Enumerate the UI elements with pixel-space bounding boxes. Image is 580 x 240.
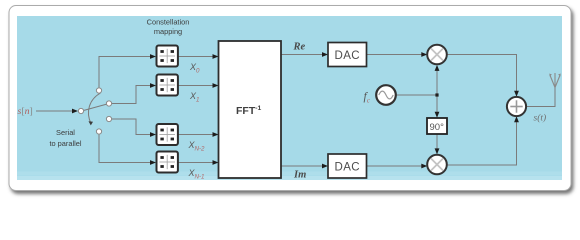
svg-text:DAC: DAC [335,162,360,174]
svg-text:s[n]: s[n] [18,106,33,117]
svg-text:mapping: mapping [154,27,182,36]
svg-text:Serial: Serial [56,128,75,137]
svg-text:Im: Im [293,170,306,181]
svg-text:s(t): s(t) [534,113,547,124]
svg-text:to parallel: to parallel [49,139,81,148]
svg-text:90°: 90° [430,122,445,133]
svg-text:Constellation: Constellation [147,18,190,27]
svg-text:Re: Re [293,42,306,53]
svg-text:DAC: DAC [335,50,360,62]
